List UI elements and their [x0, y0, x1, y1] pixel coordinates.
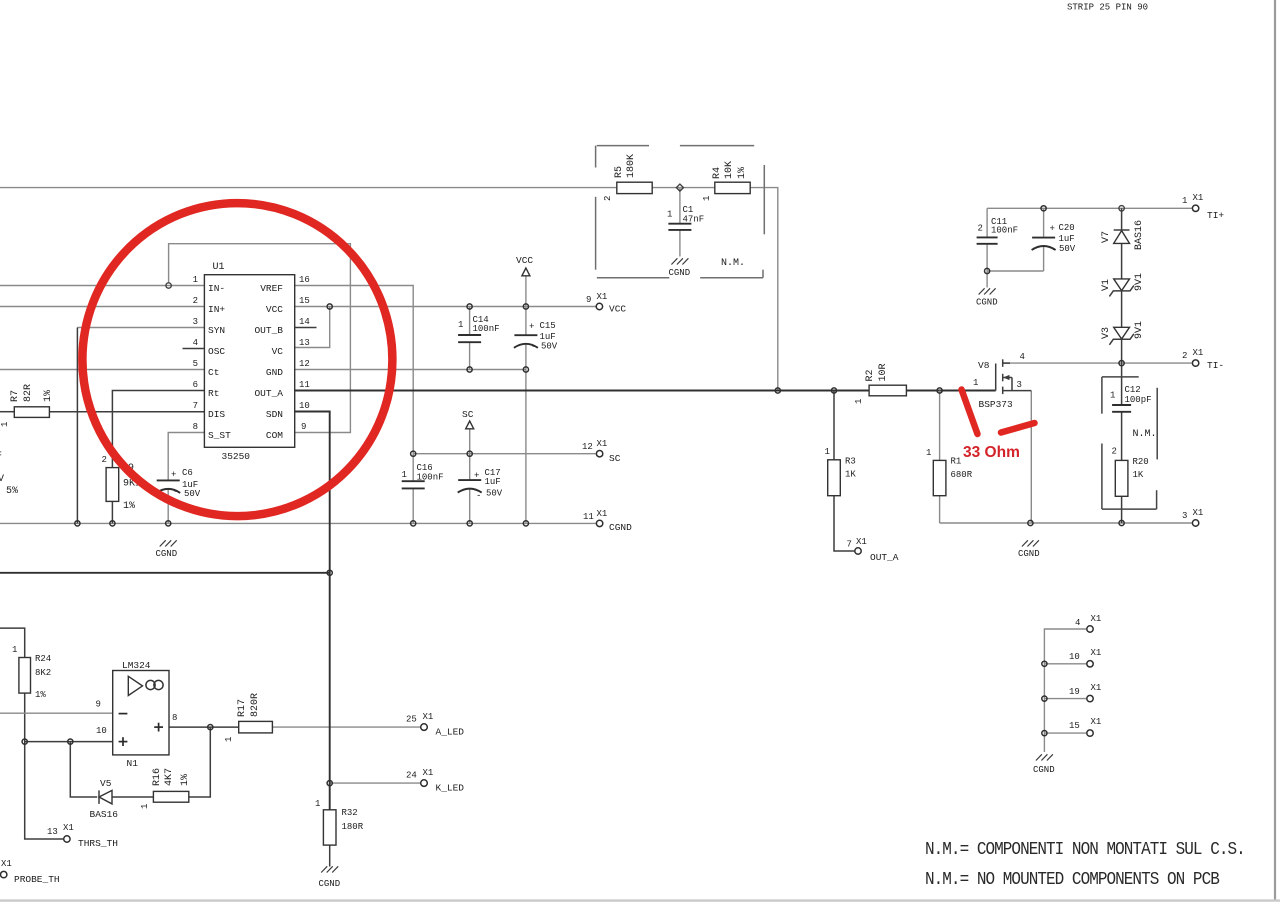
- svg-text:CGND: CGND: [609, 522, 632, 533]
- junction CGND bus x112: [110, 521, 115, 526]
- svg-text:V1: V1: [1101, 279, 1112, 291]
- svg-text:CGND: CGND: [669, 268, 691, 278]
- svg-text:3: 3: [1017, 380, 1022, 390]
- capacitor C17 1uF polarized plates: [458, 479, 481, 481]
- svg-text:1: 1: [0, 422, 10, 427]
- junction C17 top: [467, 451, 472, 456]
- IC U1 35250 box: [204, 275, 294, 448]
- svg-text:4K7: 4K7: [164, 768, 175, 786]
- svg-text:50V: 50V: [1059, 244, 1076, 254]
- wire OUT_A heavy net pin11: [295, 390, 869, 392]
- svg-text:K_LED: K_LED: [436, 783, 465, 794]
- svg-text:N.M.= NO MOUNTED COMPONENTS ON: N.M.= NO MOUNTED COMPONENTS ON PCB: [925, 869, 1219, 891]
- svg-text:BSP373: BSP373: [979, 399, 1014, 410]
- resistor R1 680R: [933, 460, 946, 495]
- svg-text:V: V: [0, 474, 4, 485]
- red annotation stroke left: [962, 390, 978, 435]
- svg-text:-: -: [1052, 245, 1057, 255]
- svg-text:12: 12: [299, 359, 310, 369]
- svg-text:10: 10: [1069, 652, 1080, 662]
- svg-text:C20: C20: [1059, 223, 1075, 233]
- resistor R9 9K1: [106, 468, 119, 502]
- capacitor C14 100nF plates: [458, 334, 481, 336]
- svg-text:X1: X1: [423, 712, 434, 722]
- svg-text:680R: 680R: [951, 470, 973, 480]
- svg-text:1: 1: [1110, 391, 1115, 401]
- junction X1 bus p10: [1042, 661, 1047, 666]
- svg-text:F: F: [0, 451, 2, 462]
- junction LM324 pin10 x70: [68, 739, 73, 744]
- svg-text:3: 3: [1182, 511, 1187, 521]
- svg-text:X1: X1: [597, 509, 608, 519]
- svg-text:33 Ohm: 33 Ohm: [963, 444, 1020, 461]
- svg-text:16: 16: [299, 275, 310, 285]
- op-amp triangle symbol: [128, 676, 142, 695]
- diode V7 BAS16: [1114, 231, 1130, 244]
- svg-text:X1: X1: [1091, 614, 1102, 624]
- svg-text:8: 8: [193, 422, 198, 432]
- resistor R20 1K: [1115, 460, 1128, 496]
- junction LM324 pin10 x24: [22, 739, 27, 744]
- svg-text:VREF: VREF: [260, 283, 283, 294]
- wire diode chain vertical: [1121, 208, 1123, 229]
- svg-text:180R: 180R: [342, 822, 364, 832]
- svg-text:X1: X1: [423, 768, 434, 778]
- svg-text:R3: R3: [845, 457, 856, 467]
- VCC power arrow: [522, 268, 530, 276]
- svg-text:STRIP 25 PIN 90: STRIP 25 PIN 90: [1067, 3, 1148, 13]
- wire IN+ net pin2: [0, 306, 204, 308]
- svg-text:OUT_B: OUT_B: [254, 325, 283, 336]
- svg-text:1: 1: [140, 804, 150, 809]
- resistor R2 10R: [869, 385, 906, 396]
- svg-text:X1: X1: [1091, 717, 1102, 727]
- wire VCC rail pin15: [295, 306, 596, 308]
- junction VCC/VC jog: [327, 304, 332, 309]
- svg-text:35250: 35250: [222, 451, 251, 462]
- svg-text:C12: C12: [1125, 385, 1141, 395]
- op-amp infinity symbol: [146, 680, 155, 689]
- wire K_LED row: [330, 782, 421, 784]
- svg-text:12: 12: [582, 442, 593, 452]
- svg-text:SC: SC: [462, 409, 474, 420]
- wire SC rail: [413, 453, 596, 455]
- svg-text:R20: R20: [1133, 457, 1149, 467]
- op-amp minus input sign: [119, 713, 128, 715]
- capacitor C1 47nF plates: [668, 223, 691, 225]
- wire C1 leads: [679, 188, 681, 224]
- svg-text:N1: N1: [127, 758, 139, 769]
- svg-text:+: +: [1050, 224, 1055, 234]
- terminal 1 X1 TI+: [1192, 205, 1198, 211]
- svg-text:X1: X1: [1091, 648, 1102, 658]
- svg-text:13: 13: [47, 827, 58, 837]
- wire X1 pin10 row: [1044, 663, 1086, 665]
- red annotation stroke right: [1001, 423, 1035, 433]
- wire VCC arrow lead: [525, 276, 527, 307]
- resistor R4 10K: [715, 182, 750, 193]
- resistor R5 180K: [617, 182, 652, 193]
- svg-text:1: 1: [825, 447, 830, 457]
- svg-text:X1: X1: [1091, 683, 1102, 693]
- svg-text:A_LED: A_LED: [436, 727, 465, 738]
- wire LM324 pin10 row: [25, 741, 113, 743]
- junction CGND bus x168: [166, 521, 171, 526]
- junction X1 bus p15: [1042, 731, 1047, 736]
- svg-text:6: 6: [193, 380, 198, 390]
- svg-text:180K: 180K: [626, 154, 637, 178]
- junction output node: [208, 725, 213, 730]
- wire GND pin12 rail: [295, 369, 526, 371]
- junction CGND bus x525: [523, 521, 528, 526]
- wire C11 ground lead: [986, 271, 988, 288]
- terminal 11 X1 CGND: [596, 520, 602, 526]
- svg-text:BAS16: BAS16: [90, 809, 119, 820]
- wire C17 leads: [469, 454, 471, 480]
- wire SDN net pin10 vertical: [295, 412, 330, 810]
- svg-text:1: 1: [402, 470, 407, 480]
- wire X1 pin15 row: [1044, 732, 1086, 734]
- op-amp plus input sign: [119, 741, 128, 743]
- junction bottom rail CGND: [1028, 520, 1033, 525]
- resistor R3 1K: [828, 460, 841, 496]
- junction IN-/COM open: [166, 283, 171, 288]
- svg-text:15: 15: [299, 296, 310, 306]
- svg-text:R24: R24: [35, 654, 51, 664]
- svg-text:1K: 1K: [845, 470, 856, 480]
- wire VC jog pin13: [295, 307, 330, 348]
- capacitor C6 1uF polarized plates: [157, 479, 180, 481]
- svg-text:R1: R1: [951, 457, 962, 467]
- svg-text:BAS16: BAS16: [1134, 220, 1145, 250]
- svg-text:8K2: 8K2: [35, 668, 51, 678]
- svg-text:R16: R16: [152, 768, 163, 786]
- svg-text:2: 2: [1112, 447, 1117, 457]
- svg-text:1: 1: [667, 210, 672, 220]
- svg-text:9: 9: [586, 295, 591, 305]
- svg-text:11: 11: [299, 380, 310, 390]
- svg-text:C15: C15: [540, 321, 556, 331]
- svg-text:24: 24: [406, 771, 417, 781]
- wire LM324 output to R17: [169, 726, 239, 728]
- svg-text:X1: X1: [63, 823, 74, 833]
- wire S_ST net pin8 to C6: [168, 433, 204, 481]
- svg-text:1uF: 1uF: [485, 477, 501, 487]
- svg-text:GND: GND: [266, 367, 283, 378]
- svg-text:1: 1: [854, 399, 864, 404]
- svg-text:9V1: 9V1: [1134, 321, 1145, 339]
- svg-text:Ct: Ct: [208, 367, 219, 378]
- wire CGND bus: [0, 522, 596, 524]
- transistor V8 channel segments: [1002, 359, 1004, 367]
- svg-text:10: 10: [96, 726, 107, 736]
- svg-text:CGND: CGND: [156, 549, 178, 559]
- terminal 7 X1 OUT_A: [855, 548, 861, 554]
- svg-text:U1: U1: [213, 262, 225, 273]
- wire Ct net pin5: [0, 369, 204, 371]
- svg-text:+: +: [171, 470, 176, 480]
- capacitor C15 1uF polarized plates: [514, 334, 537, 336]
- terminal 9 X1 VCC: [596, 303, 602, 309]
- svg-text:4: 4: [1075, 618, 1080, 628]
- ground CGND under C11: [979, 288, 996, 294]
- svg-text:3: 3: [193, 317, 198, 327]
- junction CGND bus x469: [467, 521, 472, 526]
- wire LM324 pin9 row: [0, 712, 113, 714]
- ground CGND under C1: [671, 258, 688, 264]
- junction CGND bus x77: [75, 521, 80, 526]
- wire Rt net pin6 to R9: [112, 391, 204, 468]
- svg-text:N.M.= COMPONENTI NON MONTATI S: N.M.= COMPONENTI NON MONTATI SUL C.S.: [925, 839, 1245, 861]
- svg-text:9: 9: [96, 700, 101, 710]
- svg-text:Rt: Rt: [208, 388, 219, 399]
- svg-text:4: 4: [1020, 352, 1025, 362]
- svg-text:VCC: VCC: [516, 255, 533, 266]
- svg-text:1%: 1%: [35, 690, 46, 700]
- svg-text:+: +: [474, 471, 479, 481]
- svg-text:82R: 82R: [23, 384, 34, 402]
- svg-text:TI-: TI-: [1207, 360, 1224, 371]
- wire net R5/R4 feedback rail y=187.6: [0, 187, 617, 189]
- wire SDN heavy left line: [0, 572, 330, 574]
- junction R1 top: [937, 388, 942, 393]
- transistor V8 body arrow: [1004, 377, 1013, 379]
- svg-text:N.M.: N.M.: [1133, 429, 1157, 440]
- wire COM loop pin9 to IN-: [169, 244, 351, 433]
- junction K_LED: [327, 781, 332, 786]
- wire C11 leads: [986, 208, 988, 236]
- wire C16 leads: [412, 454, 414, 481]
- wire R20 bottom lead: [1121, 496, 1123, 523]
- svg-text:OUT_A: OUT_A: [254, 388, 283, 399]
- SC power arrow: [466, 421, 474, 429]
- svg-text:VCC: VCC: [609, 304, 626, 315]
- svg-text:X1: X1: [1193, 508, 1204, 518]
- svg-text:DIS: DIS: [208, 409, 225, 420]
- wire R24 top link: [0, 628, 25, 657]
- wire C20 leads: [1043, 208, 1045, 237]
- capacitor C11 100nF plates: [977, 236, 998, 238]
- op-amp output plus sign: [154, 726, 163, 728]
- transistor V8 BSP373 gate bar: [995, 364, 997, 391]
- svg-text:R7: R7: [10, 390, 21, 402]
- terminal 4 X1: [1087, 626, 1093, 632]
- terminal 3 X1: [1192, 520, 1198, 526]
- svg-text:IN-: IN-: [208, 283, 225, 294]
- capacitor C12 100pF plates: [1112, 404, 1131, 406]
- svg-text:C16: C16: [417, 463, 433, 473]
- svg-text:2: 2: [978, 224, 983, 234]
- junction TI- node: [1119, 361, 1124, 366]
- N.M. dashed box around C12 R20: [1102, 377, 1157, 509]
- junction OUT_A x778: [775, 388, 780, 393]
- wire SC arrow lead: [469, 429, 471, 454]
- svg-text:1: 1: [315, 799, 320, 809]
- svg-text:100nF: 100nF: [473, 324, 500, 334]
- svg-text:S_ST: S_ST: [208, 430, 231, 441]
- wire R1 branch: [939, 391, 941, 461]
- svg-text:13: 13: [299, 338, 310, 348]
- svg-text:R17: R17: [237, 699, 248, 717]
- svg-text:VCC: VCC: [266, 304, 283, 315]
- svg-text:2: 2: [603, 196, 613, 201]
- svg-text:100pF: 100pF: [1125, 395, 1152, 405]
- diode V5 BAS16: [99, 790, 112, 804]
- junction X1 bus p19: [1042, 696, 1047, 701]
- sheet right border: [1274, 0, 1276, 901]
- svg-text:CGND: CGND: [1018, 549, 1040, 559]
- svg-text:10K: 10K: [724, 161, 735, 179]
- svg-text:V8: V8: [978, 360, 990, 371]
- junction C11 bottom: [985, 268, 990, 273]
- svg-text:R4: R4: [712, 167, 723, 179]
- svg-text:X1: X1: [1, 859, 12, 869]
- ground CGND under X1 connector: [1036, 754, 1053, 760]
- svg-text:SDN: SDN: [266, 409, 283, 420]
- svg-text:X1: X1: [597, 292, 608, 302]
- svg-text:7: 7: [193, 401, 198, 411]
- svg-text:C6: C6: [182, 468, 193, 478]
- junction C1 node diamond: [676, 184, 683, 191]
- svg-text:11: 11: [583, 512, 594, 522]
- legend line 2: [925, 869, 1219, 891]
- svg-text:1: 1: [224, 737, 234, 742]
- svg-text:1: 1: [458, 320, 463, 330]
- junction C15 top: [523, 304, 528, 309]
- junction C14 top: [467, 304, 472, 309]
- wire bottom right rail to 3 X1: [940, 522, 1192, 524]
- svg-text:CGND: CGND: [1033, 765, 1055, 775]
- svg-text:-: -: [476, 491, 481, 501]
- svg-text:100nF: 100nF: [991, 226, 1018, 236]
- svg-text:CGND: CGND: [976, 298, 998, 308]
- svg-text:-: -: [173, 487, 178, 497]
- svg-text:TI+: TI+: [1207, 210, 1224, 221]
- transistor V8 drain tick: [1003, 362, 1010, 364]
- svg-text:N.M.: N.M.: [721, 258, 745, 269]
- wire X1 connector bus: [1044, 629, 1086, 752]
- svg-text:X1: X1: [597, 439, 608, 449]
- junction C20 top: [1041, 206, 1046, 211]
- svg-text:OUT_A: OUT_A: [870, 552, 899, 563]
- terminal 15 X1: [1087, 730, 1093, 736]
- wire VREF pin16 to SC node: [295, 286, 414, 454]
- terminal X1 PROBE_TH: [1, 871, 7, 877]
- svg-text:50V: 50V: [541, 342, 558, 352]
- svg-text:X1: X1: [1193, 193, 1204, 203]
- svg-text:1: 1: [193, 275, 198, 285]
- svg-text:5: 5: [193, 359, 198, 369]
- zener V3 9V1: [1114, 327, 1130, 339]
- svg-text:1: 1: [973, 378, 978, 388]
- capacitor C16 100nF plates: [402, 480, 425, 482]
- junction R3 top: [831, 388, 836, 393]
- svg-text:1%: 1%: [123, 501, 135, 512]
- svg-text:4: 4: [193, 338, 198, 348]
- svg-text:+: +: [529, 322, 534, 332]
- svg-text:47nF: 47nF: [683, 215, 705, 225]
- zener V1 9V1: [1114, 279, 1130, 291]
- junction C15 bottom: [523, 367, 528, 372]
- sheet bottom border: [0, 899, 1280, 901]
- junction VREF/SC: [411, 451, 416, 456]
- svg-text:V3: V3: [1101, 327, 1112, 339]
- junction CGND bus x413: [411, 521, 416, 526]
- wire C11-C20 bottom link: [987, 270, 1044, 272]
- junction C12/R20 bottom: [1119, 520, 1124, 525]
- svg-text:820R: 820R: [250, 693, 261, 717]
- capacitor C20 1uF polarized plates: [1032, 237, 1055, 239]
- svg-text:R32: R32: [342, 808, 358, 818]
- svg-text:2: 2: [1182, 351, 1187, 361]
- svg-text:X1: X1: [1193, 348, 1204, 358]
- N.M. dashed box around R5 R4 C1: [596, 146, 765, 278]
- svg-text:V7: V7: [1101, 231, 1112, 243]
- wire X1 pin19 row: [1044, 698, 1086, 700]
- svg-text:OSC: OSC: [208, 346, 225, 357]
- svg-text:THRS_TH: THRS_TH: [78, 838, 118, 849]
- ground CGND under V8 source: [1022, 540, 1039, 546]
- wire R32 bottom lead: [329, 845, 331, 866]
- svg-text:1: 1: [702, 196, 712, 201]
- svg-text:19: 19: [1069, 687, 1080, 697]
- red annotation circle around U1: [82, 203, 392, 516]
- pin 14 OUT_B stub: [295, 327, 317, 329]
- svg-text:COM: COM: [266, 430, 283, 441]
- svg-text:15: 15: [1069, 721, 1080, 731]
- svg-text:0 5%: 0 5%: [0, 486, 18, 497]
- svg-text:PROBE_TH: PROBE_TH: [14, 874, 60, 885]
- svg-text:10: 10: [299, 401, 310, 411]
- wire DIS net pin7 through R7: [0, 411, 14, 413]
- svg-text:50V: 50V: [184, 489, 201, 499]
- transistor V8 source lead: [1003, 390, 1032, 392]
- resistor R17 820R: [239, 721, 273, 733]
- wire SYN net pin3: [77, 327, 204, 329]
- wire V8 source down leg: [1030, 391, 1032, 523]
- wire R24 bottom to THRS_TH: [25, 693, 63, 839]
- svg-text:CGND: CGND: [319, 879, 341, 889]
- wire C15 lead / vertical to CGND bus: [525, 307, 527, 335]
- svg-text:V5: V5: [100, 778, 112, 789]
- svg-text:1: 1: [1182, 196, 1187, 206]
- svg-text:X1: X1: [856, 537, 867, 547]
- svg-text:SC: SC: [609, 453, 621, 464]
- pin 4 OSC stub: [183, 348, 205, 350]
- svg-text:9: 9: [301, 422, 306, 432]
- svg-text:1uF: 1uF: [1059, 234, 1075, 244]
- op-amp N1 LM324 box: [113, 671, 169, 755]
- wire TI- rail from V8 drain: [1003, 362, 1192, 364]
- svg-text:2: 2: [193, 296, 198, 306]
- svg-text:25: 25: [406, 715, 417, 725]
- svg-text:SYN: SYN: [208, 325, 225, 336]
- wire V5 branch down: [70, 742, 97, 797]
- terminal 25 X1 A_LED: [421, 724, 428, 731]
- wire C14 leads: [469, 307, 471, 335]
- wire C12 leads: [1121, 363, 1123, 404]
- svg-text:2: 2: [102, 455, 107, 465]
- wire SYN vertical to CGND bus: [76, 328, 78, 524]
- terminal 12 X1 SC: [596, 451, 602, 457]
- resistor R24 8K2: [19, 658, 31, 694]
- junction SDN heavy line: [327, 570, 332, 575]
- svg-text:8: 8: [172, 713, 177, 723]
- junction diode chain top open: [1119, 206, 1124, 211]
- svg-text:1%: 1%: [737, 167, 748, 179]
- svg-text:10R: 10R: [878, 363, 889, 381]
- junction C14 bottom: [467, 367, 472, 372]
